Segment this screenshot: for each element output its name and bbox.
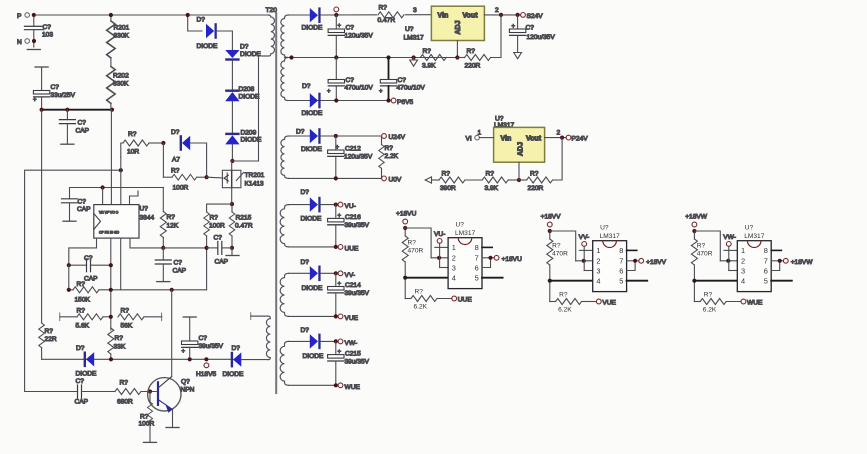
svg-text:U?: U? bbox=[140, 206, 149, 213]
wire IC pin2 long vertical bbox=[110, 238, 112, 330]
svg-text:470u/10V: 470u/10V bbox=[397, 85, 426, 92]
wire collector riser bbox=[171, 290, 173, 377]
svg-text:N: N bbox=[17, 39, 22, 46]
secondary winding 3 bbox=[281, 136, 289, 178]
svg-text:H18V5: H18V5 bbox=[196, 371, 216, 378]
wire w3 bottom rail bbox=[289, 177, 382, 179]
wire IC pin4 to 12K rail bbox=[130, 238, 163, 248]
resistor R? 22R bbox=[39, 323, 57, 359]
svg-text:C?: C? bbox=[346, 77, 355, 84]
diode D? (w6 rectifier) bbox=[301, 327, 324, 360]
svg-text:+: + bbox=[512, 24, 516, 30]
capacitor C? 103 bbox=[25, 17, 54, 47]
svg-text:C?: C? bbox=[346, 25, 355, 32]
svg-text:103: 103 bbox=[42, 32, 53, 39]
svg-text:3.9K: 3.9K bbox=[485, 185, 499, 192]
wire chain bbox=[231, 60, 233, 89]
svg-text:C?: C? bbox=[78, 120, 87, 127]
capacitor C216 39u/35V bbox=[328, 205, 370, 247]
svg-text:VW-: VW- bbox=[723, 234, 736, 241]
svg-text:+18VV: +18VV bbox=[646, 259, 667, 266]
capacitor C? CAP (on 12K rail) bbox=[155, 248, 186, 282]
svg-text:CAP: CAP bbox=[173, 268, 187, 275]
junction bbox=[110, 108, 114, 112]
svg-text:R215: R215 bbox=[236, 215, 252, 222]
svg-text:CAP: CAP bbox=[84, 276, 98, 283]
svg-text:330K: 330K bbox=[114, 33, 130, 40]
svg-text:WUE: WUE bbox=[747, 300, 763, 307]
op-amp U? LM317 (P24V regulator) bbox=[494, 116, 545, 163]
junction 5.6K/56K bbox=[109, 315, 113, 319]
svg-text:C?: C? bbox=[214, 235, 223, 242]
junction 150K left bbox=[67, 288, 71, 292]
resistor R215 0.47R bbox=[229, 204, 253, 248]
svg-text:3844: 3844 bbox=[140, 215, 155, 222]
diode D209 bbox=[225, 130, 262, 145]
svg-text:Vin: Vin bbox=[501, 136, 512, 143]
feedback winding bbox=[251, 316, 270, 360]
capacitor C? CAP (left of IC) bbox=[62, 188, 103, 222]
svg-text:+18VU: +18VU bbox=[396, 211, 417, 218]
junction gnd tap bbox=[412, 55, 416, 59]
svg-text:C?: C? bbox=[526, 25, 535, 32]
wire w3 top rail bbox=[289, 135, 310, 137]
svg-text:DIODE: DIODE bbox=[223, 371, 244, 378]
svg-text:C?: C? bbox=[398, 77, 407, 84]
junction aux cap bbox=[188, 357, 192, 361]
wire w6 rail bbox=[321, 340, 338, 342]
svg-text:WUE: WUE bbox=[345, 384, 361, 391]
svg-text:R?: R? bbox=[486, 171, 495, 178]
svg-text:D?: D? bbox=[76, 345, 85, 352]
wire w1 top rail bbox=[289, 14, 310, 16]
secondary winding 6 bbox=[280, 341, 288, 385]
svg-text:Vout: Vout bbox=[526, 136, 542, 143]
junction top rail snubber bbox=[186, 13, 190, 17]
svg-text:R?: R? bbox=[77, 281, 86, 288]
svg-text:CP FB IS GD: CP FB IS GD bbox=[99, 231, 120, 235]
svg-text:R?: R? bbox=[210, 215, 219, 222]
svg-text:ADJ: ADJ bbox=[518, 142, 525, 156]
capacitor C? CAP (horizontal, left) bbox=[69, 255, 111, 283]
svg-text:+: + bbox=[327, 89, 331, 95]
svg-text:Vout: Vout bbox=[463, 13, 479, 20]
wire w6 bottom rail bbox=[289, 384, 339, 386]
capacitor C? 33u/25V bbox=[33, 67, 76, 110]
node P24V terminal bbox=[566, 135, 588, 142]
wire R202 to IC3844 top bbox=[110, 110, 112, 205]
svg-text:3: 3 bbox=[413, 7, 417, 14]
resistor R? 150K (on lower bus) bbox=[69, 281, 207, 304]
svg-text:Vin: Vin bbox=[438, 13, 449, 20]
svg-text:5.6K: 5.6K bbox=[76, 323, 90, 330]
capacitor C? CAP (base drive) bbox=[25, 378, 115, 406]
svg-text:R?: R? bbox=[121, 308, 130, 315]
wire 220R up to output bbox=[491, 15, 501, 58]
junction cap left bbox=[67, 263, 71, 267]
wire w4 bottom rail bbox=[289, 246, 339, 248]
wire chain to drain node bbox=[231, 144, 233, 161]
resistor R? 33K bbox=[108, 328, 126, 359]
wire ADJ drop (top reg) bbox=[456, 41, 458, 58]
svg-text:K1413: K1413 bbox=[245, 181, 264, 188]
capacitor C? 470u/10V (first) bbox=[327, 58, 373, 101]
svg-text:+18VW: +18VW bbox=[791, 259, 814, 266]
junction bbox=[101, 185, 105, 189]
resistor R201 330K bbox=[107, 13, 130, 67]
svg-text:2.2K: 2.2K bbox=[385, 153, 399, 160]
svg-text:D?: D? bbox=[301, 327, 310, 334]
svg-text:S24V: S24V bbox=[527, 13, 544, 20]
junction cap bbox=[516, 13, 520, 17]
svg-text:R202: R202 bbox=[113, 73, 129, 80]
arrow (390R left) bbox=[425, 177, 431, 183]
capacitor C? 120u/35V (w1) bbox=[328, 15, 373, 58]
svg-text:DIODE: DIODE bbox=[301, 146, 322, 153]
wire ADJ drop (P24V) bbox=[518, 162, 520, 180]
svg-text:DIODE: DIODE bbox=[303, 353, 324, 360]
junction w6 bottom bbox=[334, 383, 338, 387]
svg-text:39u/35V: 39u/35V bbox=[199, 343, 224, 350]
svg-text:+18VW: +18VW bbox=[685, 214, 708, 221]
junction (10R loop bottom) bbox=[119, 168, 123, 172]
svg-text:P6V5: P6V5 bbox=[397, 99, 413, 106]
resistor R? 10R bbox=[121, 131, 164, 157]
junction w4 bottom bbox=[334, 245, 338, 249]
svg-text:C215: C215 bbox=[345, 351, 361, 358]
svg-text:100R: 100R bbox=[173, 185, 189, 192]
svg-text:D?: D? bbox=[197, 17, 206, 24]
wire Vout to S24V bbox=[484, 14, 520, 16]
svg-text:DIODE: DIODE bbox=[197, 43, 218, 50]
node VI terminal bbox=[466, 130, 482, 143]
wire IC pin1 down-left bbox=[69, 238, 97, 265]
junction cap2 top bbox=[386, 55, 390, 59]
svg-text:UUE: UUE bbox=[345, 246, 360, 253]
resistor R? 390R bbox=[432, 171, 483, 193]
svg-text:39u/35V: 39u/35V bbox=[345, 222, 370, 229]
junction base node bbox=[148, 389, 152, 393]
svg-text:C214: C214 bbox=[345, 282, 361, 289]
diode D? A7 bbox=[171, 129, 190, 164]
svg-text:D?: D? bbox=[232, 345, 241, 352]
svg-text:R?: R? bbox=[77, 308, 86, 315]
diode D208 bbox=[225, 86, 260, 101]
svg-text:R?: R? bbox=[167, 214, 176, 221]
node VU- terminal bbox=[338, 202, 356, 210]
svg-text:R?: R? bbox=[171, 168, 180, 175]
junction 33K bottom bbox=[109, 357, 113, 361]
junction w2 cap1 bbox=[334, 98, 338, 102]
svg-text:U0V: U0V bbox=[389, 177, 402, 184]
secondary winding 2 bbox=[281, 58, 288, 101]
wire w5 bottom rail bbox=[289, 315, 339, 317]
svg-text:+: + bbox=[338, 214, 342, 220]
ground (S24V cap) bbox=[514, 53, 522, 59]
wire drain to primary bottom bbox=[232, 56, 262, 161]
junction lower bus x110.8 bbox=[109, 288, 113, 292]
wire chain bbox=[231, 101, 233, 133]
svg-text:D?: D? bbox=[301, 189, 310, 196]
node UUE terminal bbox=[338, 245, 359, 253]
svg-text:1: 1 bbox=[478, 130, 482, 137]
node P6V5 terminal bbox=[391, 98, 413, 106]
node VUE terminal bbox=[338, 314, 359, 322]
svg-text:3.9K: 3.9K bbox=[422, 63, 436, 70]
svg-text:VUE: VUE bbox=[345, 315, 359, 322]
diode D? (w2 rectifier) bbox=[302, 83, 323, 117]
junction P24V bbox=[560, 136, 564, 140]
svg-text:DIODE: DIODE bbox=[239, 94, 260, 101]
svg-text:D208: D208 bbox=[239, 86, 255, 93]
svg-text:+: + bbox=[338, 24, 342, 30]
transformer core bbox=[275, 13, 277, 393]
svg-text:VU-: VU- bbox=[434, 231, 445, 238]
node S24V terminal bbox=[521, 13, 544, 21]
diode D? (w3 rectifier) bbox=[296, 128, 322, 153]
resistor R? 0.47R (series) bbox=[377, 5, 405, 24]
svg-text:+: + bbox=[338, 282, 342, 288]
junction 12K bottom bbox=[161, 246, 165, 250]
svg-text:R?: R? bbox=[120, 380, 129, 387]
junction ADJ (P24V) bbox=[517, 178, 521, 182]
node N terminal bbox=[17, 39, 40, 50]
wire 22R branch vertical bbox=[41, 110, 43, 323]
svg-text:C?: C? bbox=[84, 255, 93, 262]
junction w3 bottom bbox=[334, 176, 338, 180]
wire IC pin3 to lower bus bbox=[120, 238, 122, 290]
svg-text:R201: R201 bbox=[114, 25, 130, 32]
junction sense left bbox=[205, 246, 209, 250]
svg-text:120u/35V: 120u/35V bbox=[345, 33, 374, 40]
node P terminal bbox=[17, 13, 36, 20]
svg-text:470u/10V: 470u/10V bbox=[345, 85, 374, 92]
junction lower bus collector bbox=[170, 288, 174, 292]
svg-text:VW-: VW- bbox=[345, 340, 358, 347]
svg-text:VV-: VV- bbox=[345, 272, 356, 279]
diode D? (aux rectifier right, from feedback winding) bbox=[223, 345, 244, 378]
svg-text:CAP: CAP bbox=[75, 399, 89, 406]
svg-text:12K: 12K bbox=[167, 223, 179, 230]
wire to feedback winding bbox=[241, 359, 268, 361]
wire A7 out bbox=[190, 143, 206, 177]
svg-text:VR VF VC O: VR VF VC O bbox=[99, 210, 119, 214]
node VW- terminal bbox=[338, 339, 357, 347]
resistor R? 2.2K bbox=[379, 136, 399, 178]
capacitor C? CAP (sense filter) bbox=[207, 235, 232, 266]
svg-text:+: + bbox=[182, 349, 186, 355]
svg-text:C216: C216 bbox=[345, 214, 361, 221]
junction tap bbox=[289, 55, 293, 59]
node WUE terminal bbox=[338, 383, 360, 391]
svg-text:22R: 22R bbox=[45, 336, 57, 343]
svg-text:33K: 33K bbox=[114, 344, 126, 351]
svg-text:C?: C? bbox=[199, 335, 208, 342]
svg-text:TR201: TR201 bbox=[245, 172, 265, 179]
diode D? (w4 rectifier) bbox=[301, 189, 322, 223]
svg-text:U?: U? bbox=[405, 26, 414, 33]
transistor TR201 K1413 bbox=[222, 170, 264, 187]
resistor R? 56K bbox=[118, 308, 162, 330]
svg-text:R?: R? bbox=[530, 171, 539, 178]
wire left branch down bbox=[68, 265, 70, 290]
svg-text:0.47R: 0.47R bbox=[378, 17, 396, 24]
wire w1 rail to regulator bbox=[321, 14, 432, 16]
op-amp U? 3844 (PWM controller) bbox=[94, 205, 155, 239]
wire drain into TR201 bbox=[231, 161, 233, 170]
optocoupler U? (V phase) bbox=[547, 222, 647, 313]
wire left feedback loop vertical bbox=[25, 170, 121, 391]
wire sense node riser bbox=[206, 248, 208, 290]
wire w3 rail bbox=[321, 135, 382, 137]
junction cap1 bbox=[334, 55, 338, 59]
resistor R? 3.9K (top reg) bbox=[420, 48, 446, 70]
svg-text:R?: R? bbox=[423, 48, 432, 55]
optocoupler U? (U phase) bbox=[402, 219, 502, 310]
wire top rail bbox=[36, 14, 268, 16]
wire w5 top rail bbox=[289, 272, 310, 274]
wire 10R loop to IC bbox=[120, 157, 122, 205]
svg-text:2: 2 bbox=[557, 130, 561, 137]
capacitor C212 120u/35V bbox=[328, 136, 373, 178]
wire mid bus (w1/w2 tap) bbox=[285, 57, 458, 59]
svg-text:D?: D? bbox=[301, 259, 310, 266]
junction w5 bbox=[334, 271, 338, 275]
diode D? (w1 rectifier) bbox=[302, 7, 323, 31]
junction out bbox=[499, 13, 503, 17]
svg-text:VV-: VV- bbox=[579, 234, 590, 241]
capacitor C215 39u/35V bbox=[328, 341, 370, 385]
svg-text:Q?: Q? bbox=[181, 379, 190, 386]
svg-text:220R: 220R bbox=[528, 185, 544, 192]
resistor R? 12K bbox=[160, 188, 179, 248]
svg-text:C?: C? bbox=[78, 199, 87, 206]
svg-text:R?: R? bbox=[467, 48, 476, 55]
svg-text:220R: 220R bbox=[465, 63, 481, 70]
svg-text:U24V: U24V bbox=[389, 134, 406, 141]
terminator under R215 bbox=[226, 248, 239, 256]
junction w5 bottom bbox=[334, 314, 338, 318]
svg-text:2: 2 bbox=[495, 7, 499, 14]
diode D? (w5 rectifier) bbox=[301, 259, 323, 292]
svg-text:0.47R: 0.47R bbox=[235, 223, 253, 230]
svg-text:C?: C? bbox=[51, 84, 60, 91]
svg-text:R?: R? bbox=[442, 171, 451, 178]
diode D? (chain, pointing down) bbox=[225, 44, 261, 61]
terminator feedback top bbox=[250, 313, 252, 320]
resistor R? 3.9K (P24V) bbox=[482, 171, 519, 193]
resistor R? 220R (P24V) bbox=[519, 171, 553, 193]
svg-text:+: + bbox=[338, 350, 342, 356]
resistor R? 680R bbox=[115, 380, 156, 406]
capacitor C? 470u/10V (second) bbox=[379, 58, 425, 101]
secondary winding 5 bbox=[280, 273, 288, 316]
svg-text:VUE: VUE bbox=[602, 300, 616, 307]
svg-text:+: + bbox=[33, 98, 37, 104]
svg-text:CAP: CAP bbox=[76, 128, 90, 135]
wire w4 top rail bbox=[289, 204, 310, 206]
svg-text:R?: R? bbox=[45, 328, 54, 335]
primary winding bbox=[263, 15, 275, 56]
wire w6 top rail bbox=[289, 340, 310, 342]
svg-text:D?: D? bbox=[171, 129, 180, 136]
terminal stub above w1 junction bbox=[334, 7, 339, 12]
resistor R? 220R (top reg) bbox=[457, 48, 490, 70]
svg-text:DIODE: DIODE bbox=[302, 110, 323, 117]
junction bbox=[40, 108, 44, 112]
wire w5 rail bbox=[321, 272, 338, 274]
op-amp U? LM317 (top regulator) bbox=[404, 6, 485, 41]
transistor Q? NPN bbox=[148, 377, 195, 413]
junction w6 bbox=[334, 339, 338, 343]
svg-text:680R: 680R bbox=[117, 399, 133, 406]
resistor R202 330K bbox=[107, 67, 129, 110]
svg-text:D209: D209 bbox=[241, 130, 257, 137]
wire w4 rail bbox=[321, 204, 338, 206]
wire rail to sense node bbox=[163, 247, 206, 249]
svg-text:R?: R? bbox=[115, 335, 124, 342]
svg-text:120u/35V: 120u/35V bbox=[344, 154, 373, 161]
svg-text:D?: D? bbox=[302, 83, 311, 90]
junction cap right bbox=[109, 263, 113, 267]
svg-text:33u/25V: 33u/25V bbox=[51, 92, 76, 99]
svg-text:UUE: UUE bbox=[458, 297, 473, 304]
svg-text:P: P bbox=[17, 13, 22, 20]
svg-text:LM317: LM317 bbox=[404, 35, 424, 42]
wire snubber top drop bbox=[188, 15, 202, 31]
svg-text:C?: C? bbox=[43, 24, 52, 31]
svg-text:390R: 390R bbox=[440, 185, 456, 192]
svg-text:39u/35V: 39u/35V bbox=[345, 359, 370, 366]
svg-text:D?: D? bbox=[296, 129, 305, 136]
svg-text:330K: 330K bbox=[113, 81, 129, 88]
svg-text:R?: R? bbox=[140, 414, 149, 421]
svg-text:+: + bbox=[379, 89, 383, 95]
svg-text:10R: 10R bbox=[127, 149, 139, 156]
svg-text:39u/35V: 39u/35V bbox=[345, 290, 370, 297]
wire 220R to output riser bbox=[553, 138, 563, 180]
svg-text:R?: R? bbox=[128, 131, 137, 138]
svg-text:NPN: NPN bbox=[181, 387, 195, 394]
node VV- terminal bbox=[338, 271, 355, 279]
resistor R? 100R (gate loop) bbox=[163, 143, 206, 192]
wire source node bar bbox=[207, 203, 232, 205]
svg-text:DIODE: DIODE bbox=[301, 216, 322, 223]
wire H18V5 line bbox=[42, 358, 233, 360]
svg-text:DIODE: DIODE bbox=[302, 25, 323, 32]
svg-text:ADJ: ADJ bbox=[455, 20, 462, 34]
svg-text:C?: C? bbox=[174, 260, 183, 267]
svg-text:CAP: CAP bbox=[215, 259, 229, 266]
svg-text:A7: A7 bbox=[172, 157, 180, 164]
wire vref rail above IC bbox=[103, 187, 164, 189]
svg-text:CAP: CAP bbox=[77, 206, 91, 213]
junction sense right bbox=[230, 246, 234, 250]
optocoupler U? (W phase) bbox=[691, 222, 791, 313]
svg-text:R?: R? bbox=[379, 5, 388, 12]
resistor R? 100R (base) bbox=[139, 392, 157, 443]
wire gate to TR201 bbox=[207, 176, 223, 179]
svg-text:P24V: P24V bbox=[572, 136, 589, 143]
wire to diode chain bbox=[217, 31, 233, 50]
wire TR201 source bbox=[231, 188, 233, 204]
junction source node bbox=[230, 202, 234, 206]
node U0V terminal bbox=[382, 176, 402, 184]
diode D? (snubber horizontal) bbox=[197, 17, 218, 51]
node U24V terminal bbox=[382, 134, 406, 141]
node H18V5 terminal bbox=[196, 357, 216, 378]
junction gate node bbox=[205, 175, 209, 179]
